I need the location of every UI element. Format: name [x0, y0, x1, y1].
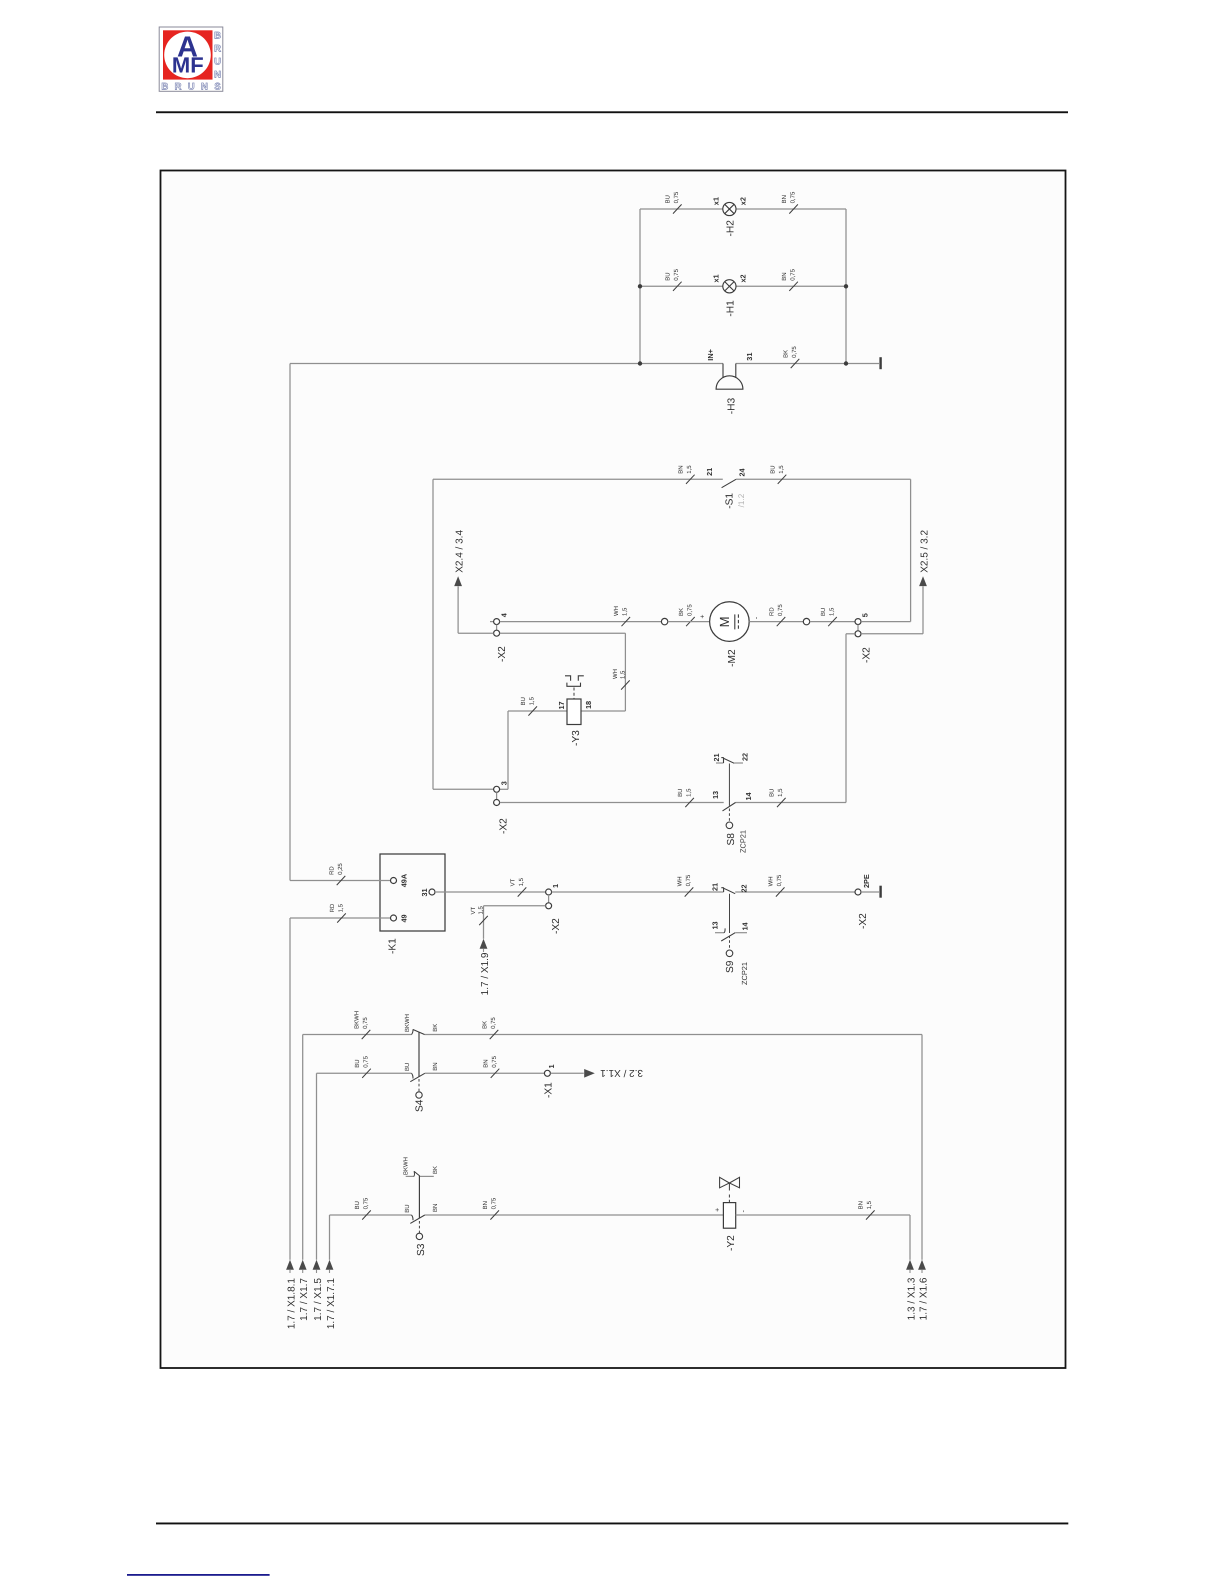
svg-text:0,75: 0,75	[776, 874, 783, 886]
wire M2 row right	[749, 621, 803, 623]
svg-text:-Y3: -Y3	[571, 730, 582, 746]
svg-text:U: U	[188, 82, 195, 93]
wire K1:49 riser down	[289, 918, 291, 1260]
svg-text:0,75: 0,75	[362, 1017, 369, 1029]
switch S4 upper contact	[412, 1029, 414, 1034]
svg-text:1,5: 1,5	[622, 607, 629, 616]
svg-text:WH: WH	[676, 876, 683, 886]
svg-text:BU: BU	[677, 789, 684, 797]
svg-text:0,75: 0,75	[791, 346, 798, 358]
wire label BU 1,5 (S8 right)	[777, 798, 786, 807]
junction dot H1 left	[638, 284, 642, 288]
wire X2:2PE to ground	[861, 891, 879, 893]
ground after H3	[879, 357, 881, 369]
pin circle 49 of K1	[391, 915, 397, 921]
svg-text:1,5: 1,5	[686, 465, 693, 474]
terminal -X2:2PE	[855, 889, 861, 895]
svg-text:x1: x1	[712, 197, 721, 205]
svg-text:BK: BK	[782, 350, 789, 358]
terminal -X2:3	[494, 786, 500, 805]
svg-text:31: 31	[420, 888, 429, 896]
interruption arrow 1.7/X1.7.1	[326, 1260, 334, 1270]
svg-text:BN: BN	[482, 1059, 489, 1067]
svg-text:1,5: 1,5	[518, 877, 525, 886]
svg-text:WH: WH	[768, 876, 775, 886]
svg-text:13: 13	[711, 791, 720, 799]
svg-text:BKWH: BKWH	[404, 1014, 411, 1032]
top rule	[156, 111, 1068, 113]
svg-text:BU: BU	[665, 272, 672, 280]
interruption arrow 1.7/X1.6	[918, 1260, 926, 1270]
svg-text:1.3 / X1.3: 1.3 / X1.3	[906, 1277, 917, 1320]
svg-text:0,75: 0,75	[673, 191, 680, 203]
svg-text:BU: BU	[404, 1204, 411, 1212]
wire Y2 to X1.3 riser	[736, 1214, 910, 1216]
wire label BK 0,75 (S4 upper)	[490, 1030, 499, 1039]
wire label BU 0,75 (H1)	[673, 282, 682, 291]
blue footer line	[127, 1574, 270, 1576]
svg-text:14: 14	[740, 921, 749, 930]
relay K1 box	[380, 854, 445, 931]
svg-text:0,75: 0,75	[490, 1017, 497, 1029]
svg-text:BKWH: BKWH	[353, 1011, 360, 1029]
brake symbol of Y3	[565, 676, 584, 699]
terminal -X2:1	[546, 889, 552, 909]
svg-text:49A: 49A	[399, 873, 408, 887]
svg-text:1.7 / X1.9: 1.7 / X1.9	[480, 952, 491, 995]
wire Y3 right riser	[624, 633, 626, 711]
svg-text:ZCP21: ZCP21	[738, 830, 747, 853]
S9 actuator link	[729, 894, 731, 933]
svg-text:S4: S4	[415, 1099, 426, 1112]
terminal -X2:5	[855, 619, 861, 637]
wire S4 lower row	[317, 1072, 412, 1074]
svg-text:5: 5	[861, 613, 870, 617]
svg-text:21: 21	[710, 883, 719, 891]
wire label BN 1,5 (Y2 right)	[866, 1210, 875, 1219]
svg-text:1: 1	[547, 1064, 556, 1068]
wire S4 lower left riser	[316, 1073, 318, 1260]
connector pin circle left of M2	[661, 618, 667, 624]
svg-text:S: S	[214, 82, 220, 93]
svg-text:BK: BK	[481, 1021, 488, 1029]
S3 pole link line	[418, 1176, 420, 1219]
wire Y3 pin 17	[508, 710, 567, 712]
svg-text:0,25: 0,25	[337, 863, 344, 875]
wire S8 riser up	[845, 634, 847, 803]
wire label VT 1,5 (K1 out)	[518, 887, 527, 896]
svg-text:R: R	[175, 82, 182, 93]
wire label BN 0,75 (H2)	[789, 204, 798, 213]
svg-text:0,75: 0,75	[362, 1055, 369, 1067]
svg-text:-X2: -X2	[858, 913, 869, 929]
svg-text:0,75: 0,75	[685, 874, 692, 886]
svg-text:S3: S3	[416, 1243, 427, 1256]
wire label BU 0,75 (S3)	[362, 1210, 371, 1219]
connector pin circle right of M2	[803, 618, 809, 624]
switch S3 upper contact (stub)	[406, 1171, 434, 1176]
svg-text:0,75: 0,75	[777, 604, 784, 616]
svg-text:BU: BU	[404, 1063, 411, 1071]
lamp H2	[723, 202, 736, 215]
svg-text:14: 14	[744, 791, 753, 800]
wire label RD 0,75 (M2 right)	[777, 617, 786, 626]
wire label BKWH 0,75 (S4 upper)	[362, 1030, 371, 1039]
wire label WH 1,5 (M2 left)	[622, 617, 631, 626]
S8 actuator link	[728, 764, 730, 806]
ground after S9 row	[879, 886, 881, 898]
switch S3 contact	[412, 1215, 414, 1220]
wire S3 row	[330, 1214, 412, 1216]
svg-text:x2: x2	[739, 197, 748, 205]
svg-text:ZCP21: ZCP21	[740, 962, 749, 985]
svg-text:B: B	[161, 82, 168, 93]
svg-text:-M2: -M2	[727, 649, 738, 667]
wire label RD 1,5 (49)	[337, 913, 346, 922]
wire S4 upper right riser to X1.6	[921, 1035, 923, 1260]
interruption arrow 1.7/X1.9	[480, 939, 488, 949]
wire S1-right vertical to M2 row	[910, 479, 912, 621]
wire S8 row	[500, 802, 724, 804]
wire S1 row	[433, 478, 723, 480]
switch S8 contact 21-22 (stub)	[716, 758, 743, 764]
svg-text:S8: S8	[726, 833, 737, 846]
solenoid coil Y2	[723, 1203, 735, 1229]
S3 actuator circle	[416, 1233, 422, 1239]
svg-text:BU: BU	[354, 1201, 361, 1209]
wire H1 branch	[640, 285, 723, 287]
svg-text:-K1: -K1	[388, 938, 399, 954]
svg-text:13: 13	[710, 921, 719, 929]
bottom rule	[156, 1523, 1068, 1525]
terminal -X2:4	[490, 619, 500, 637]
wire to X2.5 interruption point	[922, 587, 924, 634]
S4 pole link line	[418, 1032, 420, 1077]
svg-text:1.7 / X1.6: 1.7 / X1.6	[918, 1277, 929, 1320]
svg-text:M: M	[717, 616, 732, 627]
svg-text:BN: BN	[678, 465, 685, 473]
wire label BN 1,5 (S1 left)	[686, 475, 695, 484]
wire label BU 0,75 (H2)	[673, 204, 682, 213]
svg-text:VT: VT	[470, 906, 477, 914]
wire S1-left vertical to X2:3	[432, 479, 434, 789]
svg-text:R: R	[214, 44, 221, 55]
S8 actuator circle	[726, 822, 733, 829]
wire label BN 0,75 (S3)	[490, 1210, 499, 1219]
wire label BU 1,5 (Y3 left)	[528, 706, 537, 715]
junction dot H1 right	[844, 284, 848, 288]
svg-text:BN: BN	[432, 1204, 439, 1212]
wire label WH 1,5 (Y3 riser)	[621, 680, 630, 689]
svg-text:BU: BU	[769, 465, 776, 473]
wire M2 row left	[500, 621, 662, 623]
switch S1 contact	[722, 479, 736, 487]
wire label VT 1,5 (X1.9 riser)	[479, 916, 488, 925]
wire X2:4 branch row to Y3 riser	[500, 632, 626, 634]
wire label BU 1,5 (S1 right)	[778, 475, 787, 484]
wire Y3 pin 18	[581, 710, 625, 712]
svg-text:1,5: 1,5	[619, 670, 626, 679]
svg-text:IN+: IN+	[706, 349, 715, 361]
svg-text:-H3: -H3	[726, 398, 737, 415]
wire X1.3 riser	[909, 1215, 911, 1260]
wire H3 branch	[290, 363, 723, 365]
svg-text:BU: BU	[520, 697, 527, 705]
svg-text:X2.4 / 3.4: X2.4 / 3.4	[455, 530, 466, 573]
wire X2:1 to S9	[552, 891, 724, 893]
svg-text:B: B	[214, 31, 221, 42]
wire S4 upper left riser	[302, 1035, 304, 1260]
svg-text:3.2 / X1.1: 3.2 / X1.1	[600, 1067, 643, 1078]
wire to K1 pin 49A	[290, 880, 391, 882]
wire to X2.4 interruption point	[457, 587, 459, 633]
svg-text:-H1: -H1	[726, 300, 737, 317]
svg-text:BK: BK	[678, 608, 685, 616]
pin circle 49A of K1	[391, 878, 397, 884]
svg-text:X2.5 / 3.2: X2.5 / 3.2	[919, 530, 930, 573]
svg-text:BN: BN	[781, 272, 788, 280]
svg-text:31: 31	[745, 353, 754, 361]
svg-text:1.7 / X1.8.1: 1.7 / X1.8.1	[286, 1278, 297, 1330]
svg-text:-X2: -X2	[499, 818, 510, 834]
svg-text:BN: BN	[781, 195, 788, 203]
lamp H1	[723, 280, 736, 293]
interruption arrow 1.7/X1.5	[313, 1260, 321, 1270]
interruption arrow X2.5/3.2	[919, 576, 927, 586]
wire label BK 0,75 (H3)	[791, 359, 800, 368]
svg-text:2PE: 2PE	[862, 874, 871, 888]
interruption arrow 1.7/X1.8.1	[286, 1260, 294, 1270]
schematic frame border	[161, 171, 1066, 1369]
svg-text:N: N	[201, 82, 208, 93]
svg-text:RD: RD	[328, 866, 335, 875]
svg-text:0,75: 0,75	[790, 191, 797, 203]
svg-text:-X1: -X1	[543, 1082, 554, 1098]
wire lamp-left vertical	[639, 209, 641, 364]
svg-text:-S1: -S1	[724, 493, 735, 509]
svg-text:1,5: 1,5	[828, 607, 835, 616]
terminal -X1:1	[544, 1070, 550, 1076]
svg-text:1.7 / X1.7.1: 1.7 / X1.7.1	[326, 1278, 337, 1330]
wire label BK 0,75 (M2 left)	[686, 617, 695, 626]
interruption arrow 3.2/X1.1 (points right)	[584, 1069, 595, 1078]
wire label RD 0,25 (49A)	[337, 876, 346, 885]
svg-text:RD: RD	[768, 607, 775, 616]
wire K1 feed riser (to H3 net)	[289, 364, 291, 881]
svg-text:3: 3	[499, 781, 508, 785]
svg-text:BK: BK	[432, 1166, 439, 1174]
svg-text:BU: BU	[769, 789, 776, 797]
svg-text:1: 1	[551, 884, 560, 888]
svg-text:0,75: 0,75	[491, 1197, 498, 1209]
svg-text:N: N	[214, 69, 221, 80]
svg-text:MF: MF	[172, 53, 204, 78]
motor M2	[710, 602, 750, 642]
wire X2:5 branch row to S8 riser	[846, 633, 855, 635]
svg-text:1.7 / X1.5: 1.7 / X1.5	[313, 1278, 324, 1321]
svg-text:0,75: 0,75	[790, 268, 797, 280]
svg-text:1.7 / X1.7: 1.7 / X1.7	[299, 1278, 310, 1321]
svg-text:BU: BU	[820, 608, 827, 616]
svg-text:x1: x1	[712, 274, 721, 282]
svg-text:-H2: -H2	[726, 220, 737, 237]
svg-text:0,75: 0,75	[491, 1055, 498, 1067]
svg-text:WH: WH	[612, 669, 619, 679]
svg-text:1,5: 1,5	[686, 788, 693, 797]
wire X1:1 to 3.2/X1.1 arrow	[551, 1072, 584, 1074]
svg-text:49: 49	[399, 914, 408, 922]
valve symbol of Y2	[720, 1177, 740, 1202]
svg-text:+: +	[700, 615, 707, 619]
wire S3 left riser	[329, 1215, 331, 1260]
wire label WH 0,75 (S9 left)	[685, 887, 694, 896]
svg-text:21: 21	[705, 468, 714, 476]
svg-text:1,5: 1,5	[777, 788, 784, 797]
svg-text:22: 22	[739, 884, 748, 892]
interruption arrow 1.3/X1.3	[906, 1260, 914, 1270]
wire label BU 0,75 (S4 lower)	[362, 1069, 371, 1078]
wire S4 upper row	[303, 1034, 412, 1036]
interruption arrow X2.4/3.4	[454, 576, 462, 586]
svg-text:1,5: 1,5	[478, 905, 485, 914]
wire label BN 0,75 (S4 lower)	[491, 1069, 500, 1078]
svg-text:18: 18	[584, 701, 593, 709]
horn H3	[716, 364, 743, 390]
svg-text:x2: x2	[739, 274, 748, 282]
svg-text:22: 22	[741, 753, 750, 761]
wire X2:5 to S1 riser	[861, 621, 911, 623]
svg-text:24: 24	[738, 467, 747, 476]
svg-text:RD: RD	[329, 903, 336, 912]
svg-text:1,5: 1,5	[337, 903, 344, 912]
wire label BU 1,5 (M2 right)	[828, 617, 837, 626]
junction dot H3 right	[844, 361, 848, 365]
svg-text:BK: BK	[432, 1024, 439, 1032]
svg-text:0,75: 0,75	[673, 268, 680, 280]
svg-text:BU: BU	[665, 195, 672, 203]
pin circle 31 of K1	[429, 889, 435, 895]
wire X2:1 branch to X1.9	[484, 905, 546, 907]
svg-text:U: U	[214, 56, 221, 67]
interruption arrow 1.7/X1.7	[299, 1260, 307, 1270]
svg-text:1,5: 1,5	[529, 696, 536, 705]
svg-text:BN: BN	[482, 1201, 489, 1209]
svg-text:-Y2: -Y2	[726, 1235, 737, 1251]
wire Y3-left riser to X2:3	[507, 711, 509, 789]
svg-text:-X2: -X2	[551, 918, 562, 934]
svg-text:1,5: 1,5	[778, 465, 785, 474]
svg-text:-X2: -X2	[861, 647, 872, 663]
svg-text:21: 21	[712, 753, 721, 761]
svg-text:BN: BN	[858, 1201, 865, 1209]
wire lamp-right vertical	[845, 209, 847, 364]
switch S4 lower contact	[412, 1073, 414, 1078]
wire label BU 1,5 (S8 left)	[685, 798, 694, 807]
switch S8 contact 13-14	[723, 803, 736, 811]
svg-text:BKWH: BKWH	[403, 1157, 410, 1175]
svg-text:1,5: 1,5	[866, 1200, 873, 1209]
junction dot H3 left	[638, 361, 642, 365]
wire K1:31 to X2:1	[435, 891, 546, 893]
svg-text:VT: VT	[509, 878, 516, 886]
S4 actuator circle	[416, 1092, 422, 1098]
switch S9 contact 13-14 (stub)	[715, 928, 747, 941]
wire label WH 0,75 (S9 right)	[776, 887, 785, 896]
svg-text:+: +	[714, 1208, 721, 1212]
switch S9 contact 21-22 (NC)	[721, 888, 735, 894]
S9 actuator circle	[726, 950, 733, 957]
wire label BN 0,75 (H1)	[789, 282, 798, 291]
wire to K1 pin 49	[290, 917, 391, 919]
svg-text:-X2: -X2	[497, 646, 508, 662]
wire H3 to ground	[846, 363, 879, 365]
wire H2 branch	[640, 208, 723, 210]
solenoid coil Y3	[567, 699, 581, 725]
svg-text:S9: S9	[725, 960, 736, 973]
svg-text:WH: WH	[613, 606, 620, 616]
AMF Bruns logo	[159, 27, 223, 93]
svg-text:17: 17	[557, 701, 566, 709]
svg-text:BN: BN	[432, 1062, 439, 1070]
svg-text:0,75: 0,75	[686, 604, 693, 616]
svg-text:BU: BU	[354, 1059, 361, 1067]
svg-text:0,75: 0,75	[362, 1197, 369, 1209]
svg-text:/1.2: /1.2	[737, 493, 746, 507]
